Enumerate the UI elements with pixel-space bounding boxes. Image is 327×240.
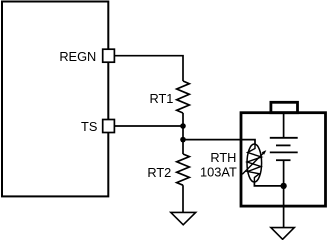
ground (battery) <box>271 228 294 240</box>
svg-text:103AT: 103AT <box>200 164 237 179</box>
wire node B to RT2 top <box>182 140 184 154</box>
wire node A to node B <box>182 126 184 140</box>
node B (thermistor tap junction) <box>180 137 186 143</box>
wire pack top to battery <box>283 113 285 138</box>
resistor RT1 <box>177 81 190 113</box>
charger IC body <box>2 2 108 197</box>
wire RT1 bottom to TS node <box>182 113 184 126</box>
battery cell plate long 1 <box>270 137 298 139</box>
thermistor RTH body <box>247 144 262 182</box>
wire thermistor bottom to node C <box>254 182 283 186</box>
resistor RT2 <box>177 154 190 185</box>
svg-text:TS: TS <box>81 119 97 134</box>
thermistor RTH element <box>247 144 261 182</box>
svg-text:RT2: RT2 <box>147 165 171 180</box>
battery cell plate long 2 <box>270 151 298 153</box>
node C (battery negative junction) <box>280 183 286 189</box>
ground (RT2) <box>171 212 196 224</box>
battery cell plate short 2 <box>276 159 291 161</box>
wire battery bottom to ground <box>283 160 285 227</box>
wire node B to thermistor top <box>183 140 255 144</box>
svg-text:RT1: RT1 <box>149 91 173 106</box>
battery pack terminal tab <box>271 102 298 112</box>
wire TS pin to node A <box>114 125 183 127</box>
svg-text:REGN: REGN <box>59 49 96 64</box>
thermistor arrow <box>242 150 266 174</box>
pin REGN <box>103 49 115 62</box>
node A (TS junction) <box>180 123 186 129</box>
battery pack box <box>241 113 326 206</box>
wire RT2 bottom to ground <box>182 185 184 212</box>
pin TS <box>103 120 115 133</box>
battery cell plate short 1 <box>276 144 291 146</box>
wire REGN pin to RT1 top <box>114 56 183 81</box>
svg-text:RTH: RTH <box>210 150 236 165</box>
